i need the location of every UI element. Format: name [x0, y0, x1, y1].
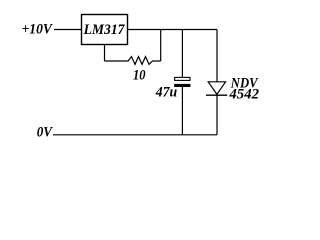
capacitor C1 47u	[174, 77, 190, 87]
wire 0V rail	[53, 134, 217, 136]
svg-text:0V: 0V	[37, 124, 54, 140]
wire output rail from U1 to diode	[128, 29, 218, 31]
svg-text:+10V: +10V	[22, 21, 54, 37]
wire rail down to diode	[216, 30, 218, 82]
svg-text:LM317: LM317	[83, 22, 126, 38]
svg-text:4542: 4542	[228, 86, 259, 102]
wire resistor to output rail	[160, 30, 162, 62]
wire input lead to U1	[54, 29, 82, 31]
diode D1 NDV4542	[206, 82, 227, 95]
resistor 10	[105, 57, 161, 65]
svg-text:47u: 47u	[155, 85, 177, 101]
wire capacitor to 0V rail	[181, 87, 183, 135]
wire U1 adjust pin down	[104, 45, 106, 62]
regulator U1 LM317	[82, 15, 128, 45]
wire rail down to capacitor	[181, 30, 183, 78]
wire diode to 0V rail	[216, 95, 218, 135]
svg-text:10: 10	[133, 68, 146, 84]
